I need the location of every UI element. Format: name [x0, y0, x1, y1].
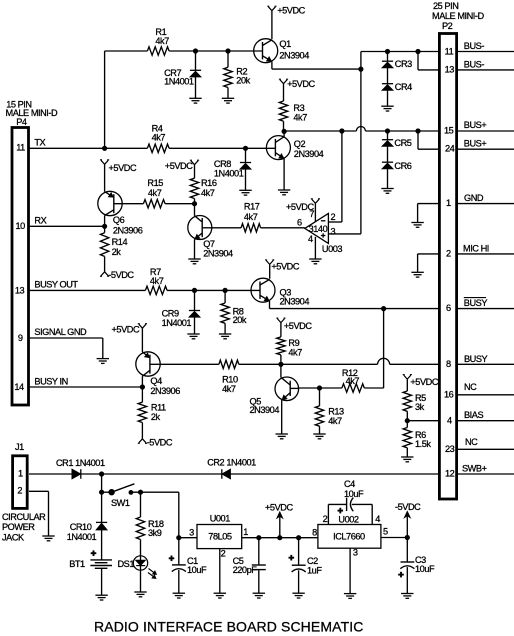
node switch junction [100, 490, 104, 494]
svg-text:+5VDC: +5VDC [112, 325, 140, 335]
node op-amp pin2 drop junction [340, 129, 344, 133]
resistor R2 [224, 51, 251, 98]
P2 pin 8 BUSY [446, 354, 514, 369]
svg-text:JACK: JACK [2, 532, 25, 542]
svg-text:12: 12 [445, 469, 455, 479]
svg-text:-5VDC: -5VDC [108, 270, 134, 280]
P2 pin 2 MIC HI [446, 243, 514, 258]
svg-text:+5VDC: +5VDC [277, 6, 305, 16]
node BIAS junction [405, 419, 409, 423]
wire U003 pin 4 to ground [314, 237, 316, 259]
diode CR2 1N4001 [207, 458, 256, 479]
ground below CR7 [189, 98, 201, 103]
resistor R9 [277, 337, 303, 364]
svg-text:CR8: CR8 [214, 159, 231, 169]
diode CR10 1N4001 [67, 522, 108, 559]
svg-text:-5VDC: -5VDC [147, 438, 173, 448]
P2 pin 24 BUS+ [445, 139, 514, 154]
svg-text:POWER: POWER [2, 522, 35, 532]
transistor Q7 2N3904 [188, 204, 233, 259]
power -5VDC below R14 [100, 270, 134, 280]
svg-text:J1: J1 [15, 442, 24, 452]
svg-text:4: 4 [308, 234, 313, 244]
node pin24 drop junction [416, 129, 420, 133]
capacitor C4 10uF [318, 479, 372, 525]
wire U001 pin 1 output to U002 pin 8 [242, 537, 318, 539]
svg-text:CR1 1N4001: CR1 1N4001 [56, 458, 105, 468]
wire Q4 base to R10 [160, 363, 219, 365]
ground below CR9 [187, 334, 199, 339]
regulator U001 78L05 [189, 514, 248, 559]
svg-text:U003: U003 [322, 244, 343, 254]
ground at P2 pin 1 [411, 223, 423, 228]
svg-text:DS1: DS1 [118, 559, 135, 569]
svg-text:BUSY IN: BUSY IN [34, 377, 67, 387]
svg-text:78L05: 78L05 [208, 532, 232, 542]
resistor R12 [342, 368, 364, 392]
svg-text:BT1: BT1 [69, 559, 85, 569]
wire Q1 emitter to BUS- vertical [272, 62, 361, 70]
svg-text:11: 11 [445, 46, 454, 56]
wire U001 pin 2 to ground [219, 549, 221, 594]
node Q1 emitter / BUS- junction [359, 67, 363, 71]
wire U002 pin 5 output [381, 537, 407, 539]
svg-text:Q1: Q1 [279, 39, 291, 49]
svg-text:BIAS: BIAS [464, 410, 483, 420]
diode CR5 [382, 131, 412, 148]
svg-text:GND: GND [464, 193, 484, 203]
svg-text:9: 9 [18, 333, 23, 343]
P2 pin 6 /BUSY [446, 298, 514, 314]
wire Q2 collector to BUS+ junction [283, 131, 285, 136]
svg-text:13: 13 [15, 285, 25, 295]
svg-text:CR10: CR10 [70, 522, 92, 532]
svg-text:3k9: 3k9 [148, 528, 162, 538]
svg-text:1uF: 1uF [307, 565, 322, 575]
P4 pin 14 label [14, 377, 67, 393]
svg-text:16: 16 [444, 389, 454, 399]
svg-text:+5VDC: +5VDC [287, 79, 315, 89]
svg-text:1: 1 [243, 527, 248, 537]
resistor R17 [241, 202, 261, 232]
svg-text:4k7: 4k7 [244, 212, 258, 222]
svg-text:2: 2 [221, 549, 226, 559]
wire U003 pin 2 to BUS+ net [328, 131, 342, 222]
resistor R11 [138, 387, 166, 439]
wire Q6 base to R15 [114, 203, 144, 205]
svg-text:4k7: 4k7 [288, 347, 302, 357]
svg-text:TX: TX [34, 137, 45, 147]
capacitor C5 220pF [233, 538, 266, 594]
node R8 junction [223, 288, 227, 292]
svg-text:R17: R17 [244, 202, 260, 212]
ground below U003 [309, 259, 321, 264]
svg-text:BUS-: BUS- [464, 41, 485, 51]
connector P2 25-pin male mini-D [432, 1, 485, 499]
ground below DS1 [134, 592, 146, 597]
node power OR junction [100, 472, 104, 476]
svg-text:U002: U002 [338, 514, 359, 524]
wire R1 to Q1 base [169, 50, 262, 52]
svg-text:15: 15 [444, 126, 454, 136]
svg-text:2N3904: 2N3904 [280, 297, 310, 307]
resistor R14 [100, 226, 127, 271]
wire R4 to Q2 base [169, 147, 275, 149]
P2 pin 1 GND [446, 193, 514, 208]
svg-text:2k: 2k [151, 412, 161, 422]
svg-text:10uF: 10uF [415, 564, 435, 574]
resistor R3 [279, 101, 307, 131]
svg-text:24: 24 [445, 144, 455, 154]
node C1 junction [177, 536, 181, 540]
diode CR8 1N4001 [214, 148, 251, 190]
diode CR4 [382, 68, 412, 106]
P2 pin 15 BUS+ [444, 120, 514, 135]
node RX junction [103, 224, 107, 228]
transistor Q3 2N3904 [251, 278, 309, 306]
svg-text:3: 3 [189, 528, 194, 538]
svg-text:2: 2 [331, 212, 336, 222]
diode CR7 1N4001 [164, 51, 201, 98]
ground at SIGNAL GND [97, 359, 109, 364]
power +5VDC at U003 pin 7 [286, 199, 320, 222]
wire TX net from P4 pin 11 up to R1 [29, 51, 147, 148]
ground below C5 [253, 593, 265, 598]
svg-text:2N3906: 2N3906 [113, 226, 143, 236]
ground below R2 [222, 98, 234, 103]
title text [94, 619, 364, 635]
svg-text:RX: RX [34, 215, 46, 225]
wire Q3 emitter to P2 pin 6 [270, 301, 440, 309]
svg-text:10uF: 10uF [344, 489, 364, 499]
svg-text:+5VDC: +5VDC [165, 161, 193, 171]
wire Q5 emitter to ground [281, 400, 283, 434]
svg-text:4k7: 4k7 [155, 36, 169, 46]
diode CR1 1N4001 [56, 458, 105, 479]
P4 pin 13 label [15, 280, 79, 296]
svg-text:1N4001: 1N4001 [214, 169, 244, 179]
node R15/R16/Q7 junction [192, 202, 196, 206]
node R1/CR7 junction [193, 49, 197, 53]
P2 pin 11 BUS- [445, 41, 514, 56]
wire to P2 pin 24 [418, 131, 439, 149]
svg-text:23: 23 [445, 444, 455, 454]
wire BUSY IN from P4 pin 14 [29, 386, 142, 388]
svg-text:5: 5 [383, 526, 388, 536]
ground below R6 [401, 457, 413, 462]
power +5VDC at Q4 emitter [112, 324, 148, 352]
ground below R8 [219, 334, 231, 339]
svg-text:8: 8 [446, 359, 451, 369]
wire R10 to R9 junction and P2 pin 8 [239, 358, 440, 364]
wire R17 to U003 output [261, 227, 305, 229]
svg-text:CIRCULAR: CIRCULAR [2, 512, 46, 522]
svg-text:NC: NC [464, 382, 477, 392]
svg-text:C4: C4 [344, 479, 355, 489]
svg-text:BUSY: BUSY [464, 298, 488, 308]
svg-text:P4: P4 [16, 117, 27, 127]
wire J1 pin 1 to CR1 [29, 473, 72, 475]
svg-text:P2: P2 [442, 21, 453, 31]
svg-text:RADIO INTERFACE BOARD SCHEMATI: RADIO INTERFACE BOARD SCHEMATIC [94, 619, 364, 635]
svg-text:1.5k: 1.5k [415, 439, 431, 449]
svg-text:220pF: 220pF [233, 565, 258, 575]
svg-text:BUSY OUT: BUSY OUT [34, 280, 78, 290]
svg-text:11: 11 [16, 143, 25, 153]
svg-text:R13: R13 [328, 406, 344, 416]
power +5VDC at R5 [403, 375, 439, 391]
svg-text:U001: U001 [210, 514, 231, 524]
converter U002 ICL7660 [312, 514, 388, 557]
ground below U001 [214, 593, 226, 598]
svg-text:2k: 2k [112, 247, 122, 257]
svg-text:MIC HI: MIC HI [463, 243, 489, 253]
wire U002 pin 3 to ground [349, 548, 351, 593]
resistor R6 [403, 421, 431, 457]
resistor R10 [219, 360, 239, 394]
ground below C1 [173, 593, 185, 598]
svg-text:1N4001: 1N4001 [162, 318, 192, 328]
transistor Q2 2N3904 [266, 136, 323, 160]
wire CR1 to power node [81, 473, 102, 475]
svg-text:3140: 3140 [309, 224, 328, 234]
svg-text:BUS+: BUS+ [464, 120, 487, 130]
wire Q7 emitter to ground [194, 239, 196, 259]
svg-text:-5VDC: -5VDC [395, 502, 421, 512]
svg-text:10: 10 [16, 221, 26, 231]
ground at J1 pin 2 [42, 536, 54, 541]
svg-text:R10: R10 [222, 375, 238, 385]
wire BIAS junction to P2 pin 4 [407, 420, 439, 422]
ground below Q5 [276, 434, 288, 439]
wire Q6 collector to RX junction [104, 216, 106, 227]
wire P2 pin 1 to ground [418, 204, 440, 223]
svg-text:10uF: 10uF [187, 565, 207, 575]
svg-text:SW1: SW1 [111, 498, 130, 508]
svg-text:R15: R15 [147, 178, 163, 188]
svg-text:BUS-: BUS- [464, 59, 485, 69]
svg-text:6: 6 [297, 217, 302, 227]
wire Q7 collector to R17 [212, 227, 241, 229]
node Q4/R11 junction [140, 385, 144, 389]
svg-text:4k7: 4k7 [148, 188, 162, 198]
svg-text:CR6: CR6 [394, 161, 411, 171]
svg-text:4k7: 4k7 [152, 133, 166, 143]
switch SW1 [102, 484, 135, 508]
power -5VDC tap on U002 output [395, 502, 421, 538]
resistor R5 [403, 391, 426, 421]
resistor R15 [143, 178, 165, 208]
svg-text:14: 14 [14, 382, 24, 392]
P2 pin 4 BIAS [447, 410, 514, 425]
wire J1 pin 2 to ground [29, 491, 49, 536]
wire power node to CR2 [102, 473, 222, 475]
LED DS1 [118, 556, 157, 592]
svg-text:+5VDC: +5VDC [410, 377, 438, 387]
node TX junction [103, 146, 107, 150]
P2 pin 12 SWB+ [445, 464, 514, 479]
svg-text:1: 1 [446, 198, 451, 208]
wire power node down to CR10 [101, 492, 103, 522]
P2 pin 13 BUS- [445, 59, 514, 74]
svg-text:Q2: Q2 [294, 139, 306, 149]
node CR3 top junction [385, 49, 389, 53]
node C2 junction [297, 536, 301, 540]
power +5VDC at Q3 collector [265, 260, 300, 279]
svg-text:Q6: Q6 [113, 215, 125, 225]
wire BUSY OUT from P4 pin 13 [29, 289, 145, 291]
ground below CR6 [381, 189, 393, 194]
resistor R18 [136, 492, 164, 556]
transistor Q1 2N3904 [254, 39, 310, 63]
ground below R13 [313, 434, 325, 439]
svg-text:6: 6 [446, 303, 451, 313]
ground below CR4 [381, 106, 393, 111]
node R9/Q5 junction [279, 362, 283, 366]
svg-text:8: 8 [312, 527, 317, 537]
svg-text:R14: R14 [112, 237, 128, 247]
svg-text:2N3904: 2N3904 [203, 249, 233, 259]
transistor Q5 2N3904 [250, 364, 299, 415]
svg-text:4: 4 [447, 415, 452, 425]
wire to P2 pin 13 [418, 52, 439, 70]
wire R15 to R16/Q7 junction [165, 203, 194, 205]
svg-text:7: 7 [309, 209, 314, 219]
svg-text:13: 13 [445, 64, 455, 74]
svg-text:MALE MINI-D: MALE MINI-D [6, 108, 59, 118]
ground below BT1 [95, 595, 107, 600]
svg-text:3: 3 [353, 547, 358, 557]
capacitor C1 10uF [169, 538, 207, 594]
svg-text:R16: R16 [201, 178, 217, 188]
svg-text:+5VDC: +5VDC [284, 321, 312, 331]
wire Q4 collector to BUSY IN junction [141, 376, 143, 387]
op-amp U003 CA3140 [297, 209, 342, 254]
node +5VDC junction [278, 536, 282, 540]
svg-text:2N3906: 2N3906 [150, 386, 180, 396]
node -5VDC junction [405, 535, 409, 539]
diode CR9 1N4001 [162, 290, 201, 334]
wire RX from P4 pin 10 [29, 225, 105, 227]
P4 pin 10 label [16, 215, 47, 231]
ground below C3 [401, 594, 413, 599]
node CR9 junction [192, 288, 196, 292]
svg-text:2N3904: 2N3904 [250, 405, 280, 415]
svg-text:4k7: 4k7 [201, 188, 215, 198]
svg-text:4: 4 [375, 514, 380, 524]
svg-text:+5VDC: +5VDC [271, 262, 299, 272]
diode CR6 [382, 146, 412, 188]
node R2 junction [226, 49, 230, 53]
wire CR2 to SWB+ P2 pin 12 [230, 473, 439, 475]
wire U001 pin 3 input [179, 537, 197, 539]
svg-text:R9: R9 [288, 338, 299, 348]
resistor R16 [190, 178, 217, 204]
svg-text:2N3904: 2N3904 [279, 51, 309, 61]
wire BUS+ net to P2 pin 15 [284, 127, 439, 132]
svg-text:20k: 20k [236, 75, 250, 85]
ground below CR8 [239, 190, 251, 195]
wire Q2 emitter to ground [283, 158, 285, 190]
resistor R13 [315, 388, 344, 434]
svg-text:CR4: CR4 [395, 82, 412, 92]
svg-text:Q4: Q4 [150, 376, 162, 386]
svg-text:3: 3 [331, 226, 336, 236]
svg-text:BUSY: BUSY [464, 354, 488, 364]
svg-text:SWB+: SWB+ [462, 464, 487, 474]
svg-text:4k7: 4k7 [293, 112, 307, 122]
svg-text:BUS+: BUS+ [464, 139, 487, 149]
power +5VDC at Q6 emitter [100, 160, 137, 192]
wire Q5 collector to R12/R13 junction [299, 387, 342, 389]
wire P2 pin 2 to ground [418, 254, 440, 272]
wire R7 to Q3 base [167, 289, 260, 291]
svg-text:4k7: 4k7 [150, 276, 164, 286]
wire power node down to switch row [101, 474, 103, 492]
power +5VDC at R9 [276, 318, 312, 337]
svg-text:MALE MINI-D: MALE MINI-D [432, 11, 485, 21]
svg-text:NC: NC [465, 437, 478, 447]
svg-text:CR3: CR3 [395, 59, 412, 69]
svg-text:2: 2 [323, 514, 328, 524]
svg-text:2N3904: 2N3904 [294, 149, 324, 159]
capacitor C3 10uF [398, 538, 435, 594]
P4 pin 9 label [18, 327, 87, 343]
connector J1 circular power jack [2, 442, 46, 542]
svg-text:2: 2 [17, 485, 22, 495]
transistor Q4 2N3906 [136, 352, 180, 396]
ground below Q7 [188, 259, 200, 264]
power +5VDC at R3 [279, 79, 316, 101]
svg-text:+5VDC: +5VDC [265, 502, 293, 512]
node CR8 junction [243, 146, 247, 150]
wire BUS- vertical [361, 52, 440, 234]
wire R12 to pin6 net [364, 309, 383, 388]
wire SW1 to R18 and U001 pin 3 [131, 492, 179, 538]
svg-text:CR5: CR5 [394, 138, 411, 148]
svg-text:4k7: 4k7 [222, 384, 236, 394]
svg-text:1: 1 [18, 468, 23, 478]
svg-text:3k: 3k [415, 402, 425, 412]
svg-text:4k7: 4k7 [346, 376, 360, 386]
svg-text:SIGNAL GND: SIGNAL GND [34, 327, 87, 337]
svg-text:CR9: CR9 [162, 308, 179, 318]
diode CR3 [382, 52, 412, 70]
P4 pin 11 label [16, 137, 45, 152]
transistor Q6 2N3906 [98, 191, 143, 235]
node C5 junction [257, 536, 261, 540]
svg-text:1N4001: 1N4001 [164, 77, 194, 87]
wire TX to R4 [105, 147, 148, 149]
node R18 top junction [138, 490, 142, 494]
svg-text:25 PIN: 25 PIN [433, 1, 458, 11]
svg-text:20k: 20k [233, 315, 247, 325]
svg-text:2: 2 [446, 248, 451, 258]
ground below C2 [292, 593, 304, 598]
svg-text:ICL7660: ICL7660 [333, 532, 365, 542]
P2 pin 16 NC [444, 382, 514, 399]
svg-text:1N4001: 1N4001 [67, 532, 97, 542]
connector P4 15-pin male mini-D [6, 100, 59, 406]
ground below Q2 [278, 190, 290, 195]
resistor R4 [147, 124, 169, 153]
wire SIGNAL GND from P4 pin 9 [29, 338, 103, 359]
power +5VDC at R16 [165, 160, 199, 178]
node R12/R13 junction [317, 386, 321, 390]
resistor R1 [147, 27, 169, 55]
node pin13 drop junction [416, 49, 420, 53]
P2 pin 23 NC [445, 437, 514, 454]
